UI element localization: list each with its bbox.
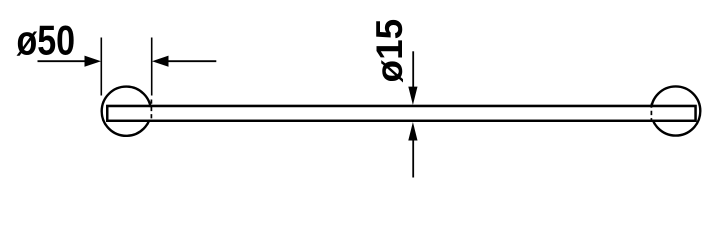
dimension ø15: upper arrow line [412, 51, 414, 88]
svg-text:ø15: ø15 [369, 19, 410, 83]
svg-text:ø50: ø50 [17, 17, 76, 64]
dimension ø15: lower arrowhead (up) [408, 122, 417, 141]
dimension ø15: upper arrowhead (down) [408, 87, 417, 105]
dimension ø50: left arrowhead [85, 56, 102, 67]
hidden edge dashed line right circle [650, 104, 652, 122]
dimension ø50: right arrowhead [152, 56, 169, 67]
hidden edge dashed line left circle [150, 100, 152, 122]
dimension ø50: right extension line [151, 38, 153, 96]
white mask of bar over circles [107, 107, 695, 119]
dimension ø50: left extension line [100, 38, 102, 96]
towel bar outline [107, 106, 695, 121]
dimension ø15: lower arrow line [412, 139, 414, 178]
towel bar outline redraw [107, 106, 695, 121]
right rosette circle ø50 [651, 86, 700, 135]
left rosette circle ø50 [102, 87, 151, 136]
dimension ø50: right arrow tail [168, 60, 216, 62]
dimension ø50: left arrow tail [38, 60, 87, 62]
